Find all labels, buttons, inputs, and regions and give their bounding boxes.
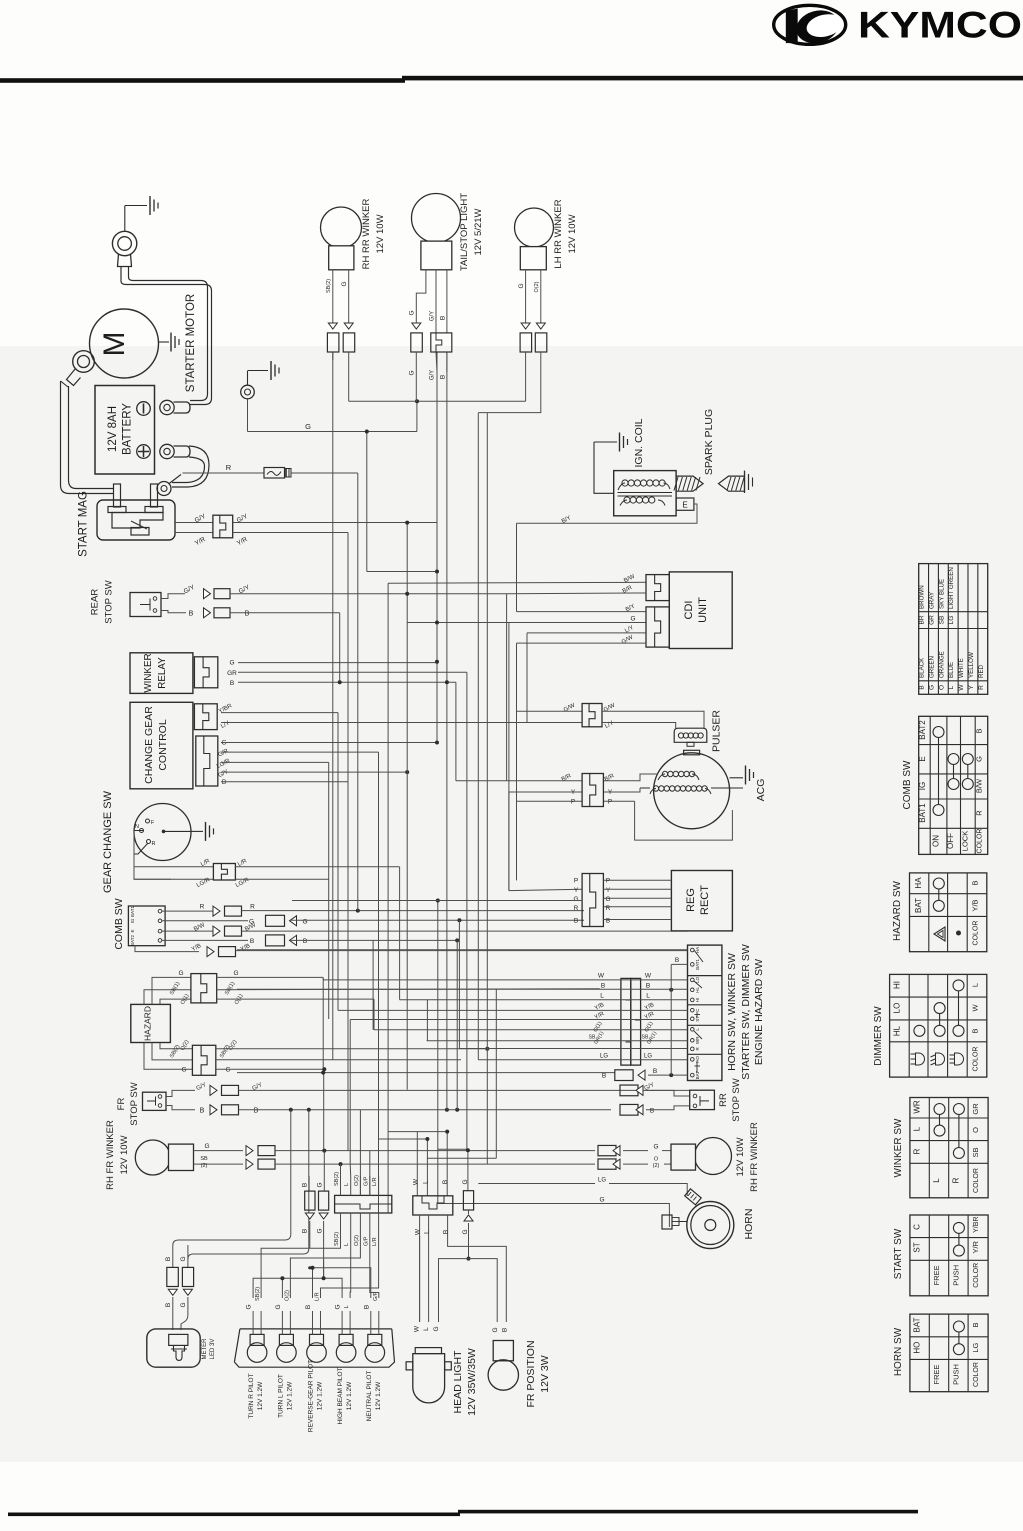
svg-text:IG: IG (130, 918, 135, 923)
color legend table (919, 564, 988, 695)
ground (248, 361, 279, 380)
wire B meter (165, 1245, 178, 1330)
svg-text:B: B (646, 983, 650, 990)
svg-text:G/Y: G/Y (430, 311, 436, 321)
wire O(2) (216, 1039, 490, 1052)
wire Y/R (233, 533, 348, 548)
svg-text:B: B (601, 983, 605, 990)
pilot lamp TURN R PILOT (246, 1287, 267, 1419)
wire O(1) (217, 993, 374, 1030)
svg-text:STOP SW: STOP SW (731, 1078, 742, 1121)
meter (147, 1329, 200, 1367)
svg-text:BAT1: BAT1 (918, 803, 927, 823)
wire G/Y (218, 769, 410, 779)
wire B with diode (161, 608, 340, 682)
hazard wiring upper (144, 970, 191, 1006)
dimmer sw table (890, 974, 987, 1077)
svg-text:B: B (254, 1107, 259, 1114)
svg-text:BAT: BAT (913, 1317, 922, 1332)
svg-text:G: G (462, 1229, 469, 1234)
svg-text:W: W (958, 684, 965, 691)
svg-text:B: B (975, 728, 984, 733)
svg-text:12V 1.2W: 12V 1.2W (286, 1381, 293, 1410)
svg-text:RH FR WINKER: RH FR WINKER (749, 1122, 760, 1192)
svg-text:R: R (250, 904, 255, 911)
svg-text:G/P: G/P (363, 1176, 369, 1186)
svg-text:BLUE: BLUE (948, 662, 955, 678)
svg-text:RH FR WINKER: RH FR WINKER (105, 1120, 116, 1190)
svg-text:B/W: B/W (975, 778, 984, 793)
acg (640, 750, 743, 829)
wire B/Y (517, 504, 698, 525)
svg-text:G: G (975, 756, 984, 762)
hazard sw table (910, 873, 987, 952)
svg-text:B: B (302, 1229, 309, 1233)
svg-text:B: B (165, 1257, 172, 1261)
svg-text:RED: RED (978, 664, 985, 678)
rh rr winker lamp (321, 207, 362, 270)
hazard unit (131, 1004, 171, 1042)
connector B (302, 1176, 316, 1248)
svg-text:PULSER: PULSER (711, 710, 723, 752)
svg-text:12V 1.2W: 12V 1.2W (375, 1381, 382, 1410)
svg-text:B: B (440, 316, 447, 320)
svg-text:W: W (413, 1325, 420, 1332)
svg-text:COLOR: COLOR (973, 1168, 980, 1193)
svg-text:G: G (180, 1302, 187, 1307)
svg-text:HL: HL (893, 1025, 902, 1036)
multi-pin connector (621, 978, 641, 1065)
svg-text:B: B (675, 957, 679, 964)
hazard wiring lower (144, 1039, 192, 1073)
wire G meter (180, 1245, 194, 1330)
svg-text:ST: ST (913, 1242, 922, 1252)
ground (594, 433, 628, 452)
comb switch (128, 906, 165, 946)
connector (194, 704, 217, 730)
svg-text:ENGINE HAZARD SW: ENGINE HAZARD SW (753, 959, 765, 1065)
rr stop switch (690, 1090, 715, 1109)
wire meter B from fr stop (173, 1110, 291, 1247)
svg-text:G: G (462, 1179, 469, 1184)
gear change switch (134, 804, 191, 861)
wire O(1) row (374, 1021, 688, 1034)
wire G (221, 740, 439, 747)
svg-text:LG: LG (948, 616, 955, 625)
svg-text:L: L (344, 1305, 350, 1308)
wire G row (162, 915, 584, 926)
svg-text:P: P (606, 878, 610, 885)
svg-text:L: L (932, 1178, 941, 1183)
svg-text:W: W (645, 973, 652, 980)
svg-text:COLOR: COLOR (973, 1362, 980, 1387)
wire Y/B row2 (338, 1002, 688, 1012)
svg-text:L/R: L/R (315, 1292, 321, 1301)
label G/W (517, 634, 647, 645)
svg-text:12V 8AH: 12V 8AH (107, 406, 119, 452)
svg-text:HORN: HORN (743, 1209, 755, 1240)
svg-text:START MAG: START MAG (78, 491, 90, 557)
top rule (0, 78, 405, 83)
svg-text:G: G (928, 685, 935, 690)
wire meter G (188, 1110, 309, 1259)
ring terminal at start mag (157, 475, 181, 496)
label L/Y (527, 625, 646, 635)
svg-text:L: L (646, 993, 650, 1000)
svg-text:G: G (302, 918, 307, 925)
svg-text:R: R (200, 904, 205, 911)
wires above wide connector (341, 1049, 361, 1196)
switch block pins (691, 947, 704, 1079)
svg-text:BAT: BAT (914, 898, 923, 913)
svg-text:12V 10W: 12V 10W (375, 214, 386, 253)
svg-text:CDI: CDI (683, 601, 695, 620)
svg-text:BAT: BAT (695, 1071, 700, 1080)
bottom rule (8, 1513, 460, 1517)
svg-text:GR: GR (971, 1103, 980, 1115)
svg-text:CONTROL: CONTROL (157, 719, 169, 770)
connector (582, 704, 602, 727)
svg-text:B: B (245, 611, 250, 618)
svg-text:O(2): O(2) (534, 281, 540, 292)
svg-text:R: R (975, 810, 984, 816)
svg-text:12V 10W: 12V 10W (735, 1137, 746, 1176)
svg-text:SB(2): SB(2) (326, 279, 332, 293)
start mag SM1 (97, 484, 175, 540)
svg-text:G: G (518, 283, 525, 288)
svg-text:REVERSE-GEAR PILOT: REVERSE-GEAR PILOT (308, 1360, 315, 1432)
svg-text:LG: LG (971, 1342, 980, 1352)
svg-text:G: G (178, 970, 183, 977)
svg-text:E: E (130, 929, 135, 932)
fuse F1 (264, 468, 291, 479)
wire R row (162, 904, 584, 917)
reg rect wires (292, 878, 671, 925)
horn (662, 1189, 734, 1249)
svg-text:G: G (317, 1228, 324, 1233)
wire SB GR(1) row (427, 1030, 688, 1045)
svg-text:E: E (918, 756, 927, 761)
svg-text:G: G (335, 1304, 342, 1309)
wire SB(2) (326, 270, 339, 360)
wire G (216, 1067, 326, 1151)
battery cable (starter) (121, 267, 212, 405)
wire SB(1) (217, 981, 600, 996)
svg-text:R: R (606, 905, 611, 912)
svg-text:BATTERY: BATTERY (122, 403, 134, 455)
wire G (341, 270, 355, 402)
svg-text:Y: Y (574, 887, 579, 894)
wire G/R (217, 748, 378, 1213)
pilot lamp bank (234, 1329, 394, 1367)
bus feeds (360, 1110, 369, 1195)
wire B/R (507, 773, 658, 783)
wide connector block (335, 1195, 392, 1213)
wire B G feed (173, 1217, 340, 1245)
connector (192, 1045, 215, 1075)
svg-text:G: G (246, 1304, 253, 1309)
KYMCO logo (774, 5, 1022, 48)
wire G (248, 399, 418, 432)
svg-text:12V 5/21W: 12V 5/21W (473, 208, 484, 255)
svg-text:W: W (971, 1004, 980, 1012)
svg-text:UNIT: UNIT (697, 597, 709, 623)
wire rows above headlight (379, 1132, 497, 1159)
svg-text:Y/R: Y/R (971, 1240, 980, 1253)
svg-text:SPARK PLUG: SPARK PLUG (703, 409, 715, 475)
wire G/W (517, 702, 583, 713)
svg-text:HA: HA (914, 877, 923, 889)
svg-text:SB(2): SB(2) (255, 1287, 261, 1301)
change gear control (130, 702, 193, 789)
svg-text:G: G (433, 1326, 440, 1331)
svg-text:12V 1.2W: 12V 1.2W (257, 1381, 264, 1410)
svg-text:HO: HO (913, 1342, 922, 1354)
svg-text:G: G (599, 1197, 604, 1204)
svg-text:P: P (608, 799, 612, 806)
svg-text:L: L (344, 1183, 350, 1186)
coil E terminal (676, 498, 694, 510)
svg-text:G/P: G/P (363, 1236, 369, 1246)
svg-text:SB(2): SB(2) (334, 1232, 340, 1246)
svg-text:G: G (229, 660, 234, 667)
wire B (440, 270, 447, 379)
svg-text:CHANGE GEAR: CHANGE GEAR (143, 706, 155, 784)
pilot feed wires (253, 1232, 379, 1298)
wire R to bus (291, 472, 358, 474)
horn sw table (910, 1314, 988, 1392)
svg-text:B: B (653, 1068, 657, 1075)
svg-text:G: G (275, 1304, 282, 1309)
svg-text:FR: FR (116, 1098, 127, 1111)
svg-text:12V 10W: 12V 10W (119, 1135, 130, 1174)
svg-text:GRAY: GRAY (928, 592, 935, 609)
wire LG/R (235, 877, 329, 889)
svg-text:R: R (574, 905, 579, 912)
battery BT1 (95, 386, 155, 475)
svg-text:R: R (152, 841, 156, 847)
wide connector labels (334, 1172, 379, 1246)
ring terminal at starter motor left (67, 351, 95, 386)
svg-text:PUSH: PUSH (951, 1265, 960, 1286)
headlight labels mid (415, 1228, 469, 1235)
svg-text:L/R: L/R (372, 1177, 378, 1186)
wire G (598, 1144, 671, 1156)
svg-text:B: B (230, 680, 234, 687)
starter motor M1 (90, 309, 159, 378)
wire W L to headlight (420, 1215, 429, 1322)
wire G/Y with diode (161, 584, 507, 599)
wire (124, 206, 126, 232)
svg-text:DIMMER SW: DIMMER SW (873, 1006, 884, 1066)
svg-text:B: B (650, 1107, 654, 1114)
svg-text:REAR: REAR (90, 589, 101, 616)
wire G jog (409, 270, 426, 402)
wire G/Y to rr stop (620, 1082, 690, 1096)
lh rr winker lamp (515, 208, 554, 270)
wire Y/B row (135, 943, 688, 956)
svg-text:G: G (180, 1256, 187, 1261)
svg-text:B: B (971, 1322, 980, 1327)
svg-text:COLOR: COLOR (973, 921, 980, 946)
wire to coil (594, 442, 614, 493)
svg-text:B: B (363, 1305, 370, 1309)
starter cable to start mag left post (61, 381, 115, 494)
svg-text:HEAD LIGHT: HEAD LIGHT (452, 1350, 464, 1414)
svg-text:WINKER SW: WINKER SW (893, 1118, 904, 1177)
svg-text:B: B (440, 375, 447, 379)
svg-text:O: O (654, 1157, 659, 1163)
wire bus (333, 352, 527, 1213)
svg-text:12V 1.2W: 12V 1.2W (317, 1381, 324, 1410)
svg-text:ON: ON (932, 835, 941, 847)
svg-text:LO: LO (695, 976, 700, 983)
connector (582, 774, 603, 807)
svg-text:WR: WR (913, 1100, 922, 1114)
svg-text:B: B (303, 938, 307, 945)
connector (646, 575, 669, 601)
svg-text:BLACK: BLACK (919, 657, 926, 678)
svg-text:R: R (913, 1148, 922, 1154)
svg-text:IG: IG (918, 782, 927, 790)
rh fr winker lamp right (671, 1138, 732, 1175)
svg-text:O: O (938, 685, 945, 690)
svg-text:M: M (98, 332, 131, 357)
svg-text:ST: ST (695, 1016, 700, 1022)
wire L row (400, 993, 688, 1000)
reg rect unit (671, 871, 732, 931)
svg-text:BR: BR (919, 615, 926, 624)
ring terminal (112, 231, 136, 266)
connector (213, 515, 233, 538)
switch block rows (237, 949, 688, 951)
junction dots (338, 399, 449, 902)
svg-text:LG: LG (600, 1054, 608, 1060)
svg-text:WR: WR (695, 1036, 700, 1044)
svg-text:G: G (409, 310, 416, 315)
svg-text:TAIL/STOP LIGHT: TAIL/STOP LIGHT (459, 193, 470, 271)
wire B row (237, 983, 688, 992)
ground (191, 822, 214, 841)
svg-text:HIGH BEAM PILOT: HIGH BEAM PILOT (337, 1367, 344, 1424)
svg-text:HAZARD SW: HAZARD SW (892, 880, 903, 941)
svg-text:B: B (443, 1230, 450, 1234)
wire LG (478, 1178, 687, 1197)
wire B/W row (162, 922, 688, 936)
svg-text:RECT: RECT (699, 885, 711, 915)
svg-text:SKY BLUE: SKY BLUE (938, 579, 945, 609)
svg-text:P: P (574, 878, 578, 885)
pilot lamp TURN L PILOT (275, 1290, 296, 1418)
wire L/R (235, 858, 399, 1000)
pulser (674, 728, 707, 746)
svg-text:YELLOW: YELLOW (968, 652, 975, 678)
wire Y/BR (218, 703, 338, 1011)
svg-text:KYMCO: KYMCO (858, 5, 1022, 46)
svg-text:L: L (948, 685, 955, 689)
svg-text:B: B (606, 918, 610, 925)
fr position lamp (488, 1341, 518, 1391)
wire L/R (134, 831, 213, 868)
svg-text:HORN SW: HORN SW (893, 1327, 904, 1376)
svg-text:L/R: L/R (372, 1237, 378, 1246)
svg-text:BAT2: BAT2 (918, 720, 927, 740)
svg-text:ORANGE: ORANGE (938, 651, 945, 678)
svg-text:COLOR: COLOR (973, 1263, 980, 1288)
svg-text:G: G (653, 1144, 658, 1151)
pilot lamp HIGH BEAM PILOT (335, 1304, 356, 1424)
svg-text:HL: HL (695, 986, 700, 992)
svg-text:N: N (135, 824, 139, 830)
connector G (317, 1151, 329, 1279)
svg-text:G: G (305, 422, 311, 431)
wire GR (227, 670, 467, 677)
wire LG/R (216, 758, 329, 1019)
svg-text:W: W (415, 1228, 422, 1235)
svg-text:G: G (573, 896, 578, 903)
cdi unit (669, 572, 732, 649)
svg-text:ACG: ACG (755, 779, 767, 802)
svg-text:E: E (682, 501, 687, 510)
spark plug (674, 471, 753, 493)
svg-text:STOP SW: STOP SW (104, 580, 115, 623)
wire Y/B row (236, 949, 688, 951)
svg-text:FREE: FREE (932, 1265, 941, 1285)
svg-text:LIGHT GREEN: LIGHT GREEN (948, 567, 955, 609)
svg-text:R: R (226, 463, 232, 472)
rh fr winker lamp (135, 1140, 193, 1175)
wire Y (509, 788, 640, 891)
connector (194, 657, 217, 688)
svg-text:METER: METER (202, 1338, 208, 1360)
tail/stop lamp (412, 194, 461, 270)
svg-text:LG: LG (644, 1054, 652, 1060)
svg-text:B: B (574, 918, 578, 925)
battery cable to start mag (172, 446, 209, 487)
wire G/Y (166, 1082, 690, 1096)
svg-text:G: G (409, 370, 416, 375)
wire O(2) (598, 1157, 671, 1170)
svg-text:B: B (971, 880, 980, 885)
svg-text:WHITE: WHITE (958, 658, 965, 678)
wire B (221, 779, 348, 786)
svg-text:L: L (423, 1327, 430, 1331)
wire B (230, 680, 456, 687)
svg-text:OFF: OFF (946, 833, 955, 849)
pilot junction dots (280, 1266, 325, 1281)
svg-text:HORN SW, WINKER SW: HORN SW, WINKER SW (726, 953, 738, 1071)
svg-text:BAT1: BAT1 (130, 906, 135, 917)
svg-text:L: L (424, 1230, 431, 1234)
svg-text:L: L (971, 983, 980, 987)
pilot lamp NEUTRAL PILOT (363, 1291, 384, 1421)
svg-text:B: B (501, 1328, 508, 1332)
svg-text:COMB SW: COMB SW (902, 760, 913, 809)
svg-text:SB(2): SB(2) (334, 1172, 340, 1186)
winker sw table (910, 1098, 988, 1198)
svg-text:B: B (919, 685, 926, 689)
rear stop switch (130, 593, 161, 617)
junction dots headlight (425, 1130, 470, 1153)
svg-text:B: B (165, 1303, 172, 1307)
svg-text:G/Y: G/Y (430, 370, 436, 380)
svg-text:FR POSITION: FR POSITION (525, 1340, 537, 1407)
wire Y/R (175, 533, 213, 548)
wire G/W right (602, 702, 704, 728)
wire L/Y (220, 720, 582, 730)
acg loop wire (635, 801, 733, 840)
G connector pin (463, 1191, 473, 1221)
